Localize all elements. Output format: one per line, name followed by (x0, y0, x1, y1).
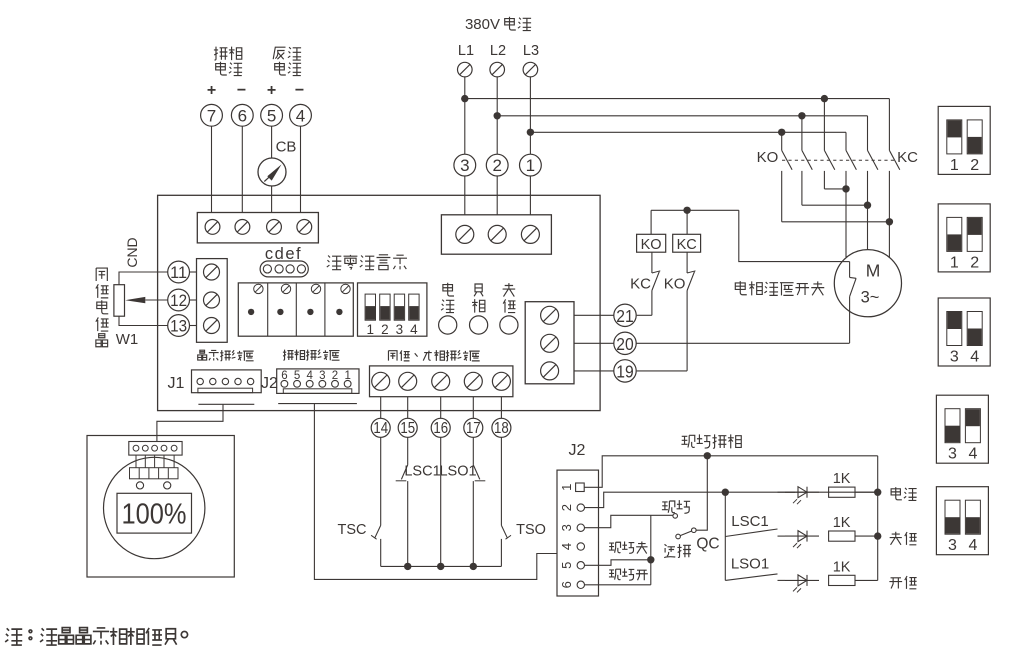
svg-text:21: 21 (616, 306, 633, 326)
svg-text:380V: 380V (465, 16, 500, 33)
svg-text:13: 13 (170, 317, 187, 336)
svg-text:CB: CB (276, 139, 297, 156)
svg-text:3: 3 (948, 446, 957, 463)
svg-text:6: 6 (238, 106, 247, 125)
svg-text:−: − (237, 82, 246, 99)
svg-text:LSO1: LSO1 (731, 556, 769, 573)
svg-text:cdef: cdef (265, 245, 302, 263)
svg-text:LSC1: LSC1 (731, 513, 769, 530)
svg-text:16: 16 (433, 420, 448, 437)
svg-text:4: 4 (296, 106, 305, 125)
svg-text:KC: KC (630, 276, 651, 293)
svg-text:KC: KC (677, 237, 697, 253)
svg-text:6: 6 (559, 581, 574, 588)
svg-text:3: 3 (950, 349, 959, 366)
svg-text:LSO1: LSO1 (439, 464, 476, 480)
svg-text:1K: 1K (833, 515, 851, 531)
svg-text:20: 20 (616, 334, 634, 354)
svg-text:17: 17 (466, 420, 481, 437)
svg-text:3: 3 (460, 156, 469, 175)
svg-text:15: 15 (400, 420, 415, 437)
svg-text:19: 19 (616, 361, 633, 381)
svg-text:2: 2 (559, 504, 574, 511)
svg-text:3: 3 (559, 524, 574, 531)
svg-text:11: 11 (170, 263, 187, 282)
svg-text:L3: L3 (523, 43, 539, 59)
svg-text:KC: KC (897, 149, 918, 166)
svg-text:M: M (866, 261, 881, 281)
svg-text:J1: J1 (168, 375, 185, 392)
svg-text:3~: 3~ (861, 289, 880, 307)
svg-text:2: 2 (381, 322, 389, 337)
svg-text:J2: J2 (261, 375, 278, 392)
svg-text:4: 4 (968, 446, 977, 463)
svg-text:+: + (207, 82, 216, 99)
svg-text:1: 1 (950, 254, 959, 271)
svg-text:4: 4 (970, 349, 979, 366)
svg-text:−: − (295, 82, 304, 99)
svg-text:5: 5 (267, 106, 276, 125)
svg-text:KO: KO (641, 237, 662, 253)
svg-text:L1: L1 (458, 43, 474, 59)
svg-text:1: 1 (559, 484, 574, 491)
svg-text:TSC: TSC (338, 522, 367, 538)
svg-text:1K: 1K (833, 559, 851, 575)
svg-text:QC: QC (696, 536, 719, 553)
svg-text:W1: W1 (116, 331, 139, 348)
svg-text:1: 1 (367, 322, 375, 337)
svg-text:5: 5 (559, 562, 574, 569)
svg-text:12: 12 (170, 291, 187, 310)
svg-text:4: 4 (559, 543, 574, 550)
svg-text:TSO: TSO (516, 522, 546, 538)
svg-text:3: 3 (396, 322, 404, 337)
svg-text:1: 1 (950, 157, 959, 174)
svg-text:1: 1 (526, 156, 535, 175)
svg-text:18: 18 (494, 420, 509, 437)
svg-text:4: 4 (968, 537, 977, 554)
svg-text:LSC1: LSC1 (404, 464, 440, 480)
svg-text:7: 7 (207, 106, 216, 125)
svg-text:1K: 1K (833, 471, 851, 487)
svg-text:CND: CND (124, 237, 140, 267)
svg-text:100%: 100% (122, 499, 187, 531)
svg-text:KO: KO (757, 149, 779, 166)
svg-text:14: 14 (373, 420, 388, 437)
svg-text:3: 3 (948, 537, 957, 554)
svg-text:KO: KO (664, 276, 686, 293)
svg-text:2: 2 (492, 156, 501, 175)
svg-text:L2: L2 (490, 43, 506, 59)
svg-text:2: 2 (970, 157, 979, 174)
svg-text:4: 4 (410, 322, 418, 337)
svg-text:+: + (267, 82, 276, 99)
svg-text:J2: J2 (569, 442, 586, 459)
svg-text:2: 2 (970, 254, 979, 271)
